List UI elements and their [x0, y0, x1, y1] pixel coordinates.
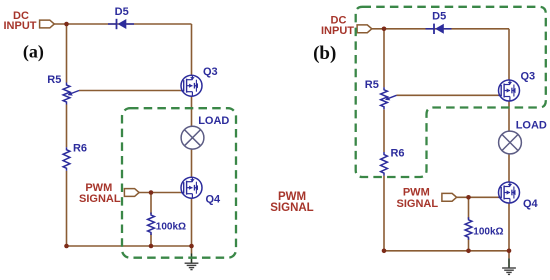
wire PWM input to Q4 gate (a) [139, 192, 181, 194]
svg-text:LOAD: LOAD [516, 120, 547, 132]
wire top rail (b) [372, 28, 509, 30]
svg-text:PWM: PWM [403, 187, 430, 199]
terminal PWM SIGNAL (a) [124, 189, 139, 197]
ground (b) [508, 258, 510, 267]
svg-text:SIGNAL: SIGNAL [397, 198, 439, 210]
R5 wiper arrow (b) [388, 95, 397, 98]
wire lamp to Q4 drain (a) [191, 149, 193, 177]
wire top rail (a) [54, 23, 191, 25]
junction bottom-left (a) [64, 244, 69, 249]
wire Q3 drain drop (b) [508, 29, 510, 80]
terminal DC INPUT (b) [357, 25, 372, 33]
svg-text:PWM: PWM [85, 182, 112, 194]
wire 100k column lower (a) [150, 234, 152, 247]
wire Q4 source to bottom (a) [191, 198, 193, 246]
svg-text:Q3: Q3 [203, 66, 218, 78]
terminal PWM SIGNAL (b) [442, 193, 457, 201]
svg-text:D5: D5 [115, 6, 129, 18]
svg-text:Q4: Q4 [205, 193, 221, 205]
resistor 100k&#937; (b) [465, 217, 472, 240]
terminal DC INPUT (a) [40, 20, 55, 28]
resistor R5 (b) [381, 87, 388, 109]
svg-text:R6: R6 [390, 147, 404, 159]
dashed region box circuit (a) [122, 108, 236, 258]
transistor Q4 (a) [181, 177, 202, 198]
wire left column upper (a) [66, 24, 68, 83]
wire left column upper (b) [383, 29, 385, 88]
transistor Q3 (b) [499, 80, 520, 101]
dashed region box circuit (b) L-shaped [356, 7, 546, 177]
junction 100k bottom (a) [149, 244, 154, 249]
junction PWM gate node (b) [466, 195, 471, 200]
wire left column middle (a) [66, 105, 68, 148]
svg-text:Q3: Q3 [520, 71, 535, 83]
transistor Q3 (a) [181, 75, 202, 96]
svg-text:(a): (a) [23, 42, 44, 63]
svg-text:R5: R5 [365, 79, 379, 91]
wire bottom rail (a) [67, 245, 192, 247]
resistor 100k&#937; (a) [148, 213, 155, 236]
wire 100k column lower (b) [468, 238, 470, 251]
wire left column middle (b) [383, 109, 385, 152]
svg-text:R5: R5 [47, 74, 61, 86]
wire ground stub (b) [508, 251, 510, 258]
diode D5 (a) [108, 23, 117, 25]
lamp LOAD (a) [181, 126, 204, 149]
svg-text:SIGNAL: SIGNAL [79, 193, 121, 205]
lamp LOAD (b) [499, 131, 522, 154]
junction Q4 source bottom (a) [189, 244, 194, 249]
wire left column lower (b) [383, 176, 385, 251]
junction Q4 source bottom (b) [507, 249, 512, 254]
svg-text:R6: R6 [73, 143, 87, 155]
wire lamp to Q4 drain (b) [508, 154, 510, 182]
svg-text:100kΩ: 100kΩ [473, 226, 503, 237]
wire R5 wiper to Q3 gate (a) [79, 90, 181, 92]
wire R5 wiper to Q3 gate (b) [397, 94, 499, 96]
svg-text:D5: D5 [432, 11, 446, 23]
wire ground stub (a) [191, 246, 193, 254]
junction top-left node (b) [382, 27, 387, 32]
svg-text:LOAD: LOAD [198, 115, 229, 127]
wire 100k column upper (b) [468, 197, 470, 219]
svg-text:INPUT: INPUT [321, 25, 354, 37]
svg-text:(b): (b) [313, 43, 336, 64]
wire Q3 drain drop (a) [191, 24, 193, 75]
wire Q3 source to lamp (a) [191, 96, 193, 126]
junction bottom-left (b) [382, 249, 387, 254]
wire 100k column upper (a) [150, 193, 152, 215]
wire left column lower (a) [66, 171, 68, 246]
resistor R6 (a) [63, 147, 70, 171]
transistor Q4 (b) [499, 182, 520, 203]
junction 100k bottom (b) [466, 249, 471, 254]
ground (a) [191, 254, 193, 263]
wire Q3 source to lamp (b) [508, 101, 510, 131]
resistor R5 (a) [63, 83, 70, 105]
wire Q4 source to bottom (b) [508, 203, 510, 251]
junction PWM gate node (a) [149, 190, 154, 195]
svg-text:Q4: Q4 [523, 198, 539, 210]
R5 wiper arrow (a) [70, 91, 79, 94]
wire bottom rail (b) [384, 250, 509, 252]
resistor R6 (b) [381, 152, 388, 176]
diode D5 (b) [426, 28, 435, 30]
junction top-left node (a) [64, 22, 69, 27]
wire PWM input to Q4 gate (b) [457, 196, 499, 198]
svg-text:INPUT: INPUT [4, 20, 37, 32]
svg-text:SIGNAL: SIGNAL [270, 202, 313, 214]
svg-text:100kΩ: 100kΩ [156, 222, 186, 233]
